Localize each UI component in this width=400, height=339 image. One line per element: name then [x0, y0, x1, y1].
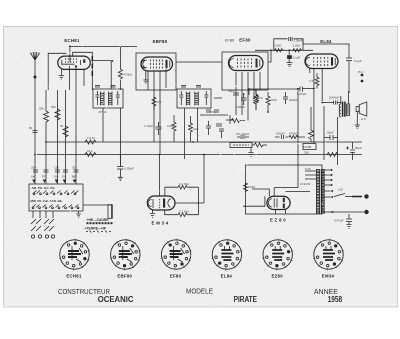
capacitor 6.8k vertical [241, 94, 247, 105]
resistor volume below IF2 [172, 115, 176, 142]
capacitor row above switchbox [33, 170, 79, 172]
power supply box [246, 165, 323, 214]
junction J8 [297, 88, 299, 90]
capacitor 50uF low with plus [346, 142, 355, 160]
EM34 ground [150, 210, 155, 218]
tube EF80 [229, 56, 264, 71]
resistor 2.2M upper EM34 [165, 185, 199, 196]
junction J12 [348, 91, 350, 93]
box around ECH81 left [48, 53, 66, 90]
svg-text:EF80: EF80 [170, 274, 182, 279]
switch contacts row2 [32, 205, 79, 209]
bus wire y154.5 [37, 154, 362, 156]
svg-text:0,05μF: 0,05μF [125, 167, 135, 171]
capacitor 0.05 below IF1 [117, 155, 124, 178]
arrows into switch box [32, 180, 76, 184]
resistor 2.2M lower EM34 [165, 187, 199, 216]
socket EBF80 [110, 239, 141, 271]
fuse box [303, 144, 316, 150]
capacitor 0.1uF below junction [288, 50, 290, 55]
svg-text:5000pF: 5000pF [329, 96, 339, 100]
socket ECH81 [59, 239, 90, 271]
IF1 cap right [116, 91, 120, 105]
ground under ECH81 [59, 69, 64, 79]
box around ECH81 right [73, 52, 93, 90]
IF1 coil 1 [101, 92, 105, 106]
IF1 trimmer caps above box [95, 86, 116, 88]
svg-text:250: 250 [31, 166, 36, 170]
top cluster wire y50.3 [255, 49, 313, 51]
svg-text:0,47μF: 0,47μF [334, 219, 344, 223]
switch contacts below box [31, 211, 54, 231]
resistor 47k under EF80 [254, 90, 258, 110]
junction J6 [192, 141, 194, 143]
svg-text:BE: BE [72, 175, 76, 179]
svg-text:ECH81: ECH81 [66, 274, 82, 279]
tube EM34 [147, 196, 175, 210]
svg-text:+TERRE—HP: +TERRE—HP [85, 226, 107, 230]
junction J10 [313, 141, 315, 143]
svg-text:AM: AM [31, 175, 36, 179]
svg-text:22 k: 22 k [87, 149, 93, 153]
junction J3 [120, 154, 122, 156]
junction J11 [321, 102, 323, 104]
mains terminal 2 [364, 210, 368, 214]
antenna lead wire [34, 65, 36, 184]
wires inside PSU box [252, 165, 310, 196]
junction J7 [248, 88, 250, 90]
wires below EF80 [236, 72, 260, 115]
svg-text:0,5M: 0,5M [167, 124, 174, 128]
tube ECH81 [58, 56, 91, 69]
transformer tap arrows [331, 190, 334, 213]
wire top of R to box1 [45, 90, 47, 111]
svg-text:30: 30 [72, 166, 76, 170]
junction J4 [159, 154, 161, 156]
svg-text:2,2 MΩ: 2,2 MΩ [179, 182, 190, 186]
horizontal wire mid left [200, 114, 228, 116]
svg-text:80: 80 [29, 126, 33, 130]
svg-text:ECH81: ECH81 [64, 38, 80, 43]
antenna [30, 52, 40, 65]
wire grid feeds left section [46, 90, 76, 184]
wire EF80 box to cluster [268, 50, 271, 62]
svg-text:0,05μF: 0,05μF [297, 92, 307, 96]
ground under EBF80 [143, 71, 148, 84]
svg-text:4700: 4700 [270, 98, 277, 102]
wire extensions below EBF80 [154, 90, 160, 155]
resistor 470k vertical mid [266, 92, 270, 112]
wire extensions below EF80 [236, 90, 248, 121]
svg-text:EF80: EF80 [239, 38, 251, 43]
svg-text:470kΩ: 470kΩ [124, 73, 134, 77]
transformer taps [324, 169, 333, 212]
resistor 2.2k right on wire [293, 49, 301, 52]
capacitor antenna lead [33, 131, 38, 133]
switch contacts row1 [33, 191, 79, 195]
speaker [356, 102, 367, 116]
svg-text:47k: 47k [157, 100, 162, 104]
junction J18 [255, 89, 257, 91]
junction J20 [243, 93, 245, 95]
svg-text:0,1μF: 0,1μF [354, 59, 362, 63]
wire EZ80 left lead [243, 196, 286, 214]
svg-text:50μF: 50μF [355, 146, 362, 150]
capacitor 5000pF speaker [322, 101, 341, 105]
svg-text:1kΩ: 1kΩ [193, 127, 199, 131]
resistor 47k mid vertical [254, 90, 259, 110]
junction J5 [203, 154, 205, 156]
svg-text:FUSIB: FUSIB [304, 145, 312, 149]
mains wire bottom [330, 211, 364, 213]
tube EBF80 [141, 57, 173, 71]
IF2 cap left [179, 91, 183, 105]
svg-text:1958: 1958 [328, 295, 343, 304]
capacitor 2.5kpF in loop top [289, 37, 292, 41]
mid cluster caps at y110 [206, 110, 219, 112]
svg-text:200pF: 200pF [289, 98, 298, 102]
svg-text:EF80: EF80 [225, 39, 234, 43]
long vertical x298 [297, 89, 299, 165]
svg-text:EL84: EL84 [221, 274, 233, 279]
wires below IF1 [103, 108, 120, 167]
resistor below IF2 [189, 116, 193, 142]
IF transformer 1 box [93, 89, 123, 108]
wire top cluster to EL84 [303, 39, 349, 58]
resistor 47k vertical [44, 111, 49, 122]
box around EF80 [222, 52, 268, 90]
terminal squares row [87, 222, 113, 224]
junction J1 [69, 46, 71, 48]
svg-text:2,2 MΩ: 2,2 MΩ [179, 210, 190, 214]
svg-text:150Ω: 150Ω [248, 185, 256, 189]
ground below 0.05 cap [118, 177, 123, 180]
wires below EBF80 [148, 69, 166, 90]
right column wires [324, 106, 338, 165]
heater wires 6.3V [305, 171, 316, 179]
svg-text:EBF80: EBF80 [153, 39, 168, 44]
resistor 470k EL84 grid [289, 135, 305, 138]
capacitor 50uF right [324, 135, 338, 140]
svg-text:50k: 50k [51, 105, 56, 109]
svg-text:100pF: 100pF [276, 132, 285, 136]
wire EBF80 to EF80 [176, 61, 222, 63]
bus wire y142 [46, 141, 362, 143]
switch box ground [76, 211, 81, 218]
svg-text:250: 250 [304, 151, 309, 155]
IF1 coil 2 [109, 92, 113, 106]
svg-text:2,2 M: 2,2 M [87, 136, 95, 140]
resistor 4.7M horizontal [231, 119, 245, 123]
junction J13 [45, 141, 47, 143]
svg-text:OC: OC [62, 175, 66, 179]
fuse box right of switch box [108, 205, 112, 219]
wires below EL84 [310, 69, 322, 143]
svg-text:2,5kpF: 2,5kpF [294, 39, 303, 43]
wire EM34 to right [175, 155, 204, 203]
wire from IF2 right to x298 [214, 89, 298, 98]
resistor 1.2k vertical right [309, 107, 314, 142]
socket EF80 [161, 239, 192, 271]
svg-text:1,5: 1,5 [309, 79, 314, 83]
box around EBF80 [136, 53, 176, 90]
junction J15 [34, 154, 36, 156]
socket EZ80 [262, 239, 293, 271]
EM34 feed wire [158, 155, 160, 196]
wire ECH81 to EBF80 [92, 61, 111, 90]
volume pot cluster mid [216, 115, 234, 126]
capacitor 200p [283, 92, 288, 104]
IF2 trimmer caps above box [181, 86, 201, 88]
switch bar [352, 196, 362, 198]
svg-text:AM. PO. GO. OC.: AM. PO. GO. OC. [32, 186, 56, 190]
svg-text:25k: 25k [39, 107, 44, 111]
capacitor cathode EL84 [297, 87, 314, 92]
junction J14 [57, 154, 59, 156]
ground speaker [355, 112, 360, 129]
resistor 22k horizontal on bus2 [85, 153, 96, 157]
svg-text:2k: 2k [60, 124, 64, 128]
IF2 transformer box [177, 89, 211, 108]
capacitor 0.47uF [346, 214, 352, 224]
mains switch [334, 194, 352, 197]
ground mains [347, 225, 352, 229]
junction J19 [267, 111, 269, 113]
resistor 1.5k under EL84 [315, 73, 319, 89]
cluster caps under EF80 [233, 93, 239, 95]
junction J17 [270, 49, 272, 51]
svg-text:PIRATE: PIRATE [234, 295, 257, 304]
svg-text:E M 3 4: E M 3 4 [152, 221, 169, 226]
resistor 2.2k left on wire [274, 49, 282, 52]
svg-text:2,2kΩ: 2,2kΩ [274, 44, 283, 48]
connector strip marks row [86, 231, 111, 233]
output transformer [339, 92, 350, 117]
socket EM34 [313, 239, 344, 271]
capacitor right of EL84 [346, 58, 352, 92]
vertical x249 [248, 89, 250, 95]
svg-text:P.U.: P.U. [358, 70, 364, 74]
wires below IF2 [185, 108, 198, 159]
capacitor 4.7kpF mid-left [156, 122, 162, 135]
resistor 2.2k horizontal low [327, 153, 338, 157]
scan speckles [6, 29, 396, 305]
junction J9 [313, 88, 315, 90]
wires below ECH81 tube [70, 66, 85, 90]
resistor 2.2M horizontal on bus [85, 140, 96, 144]
mains terminal 1 [364, 194, 368, 198]
resistor under EBF80 diode [152, 97, 156, 110]
svg-text:110: 110 [54, 166, 59, 170]
IF2 cap right [204, 91, 208, 105]
PU terminal dots [361, 74, 364, 77]
svg-text:2,2kΩ: 2,2kΩ [293, 44, 302, 48]
IF2 coil 1 [186, 92, 190, 106]
junction dot antenna [34, 76, 37, 79]
svg-text:PU 220pF: PU 220pF [236, 132, 250, 136]
coil marks on box right ECH81 [91, 56, 93, 76]
junction J2 [112, 60, 114, 62]
tube EZ80 [267, 196, 290, 209]
svg-text:H.P.: H.P. [361, 117, 367, 121]
switch box [29, 184, 83, 211]
svg-text:6,3V: 6,3V [305, 167, 311, 171]
resistor 470k between tubes [118, 47, 122, 90]
coupling capacitor 100pF EL84 grid [275, 135, 289, 139]
svg-text:MW. RC. F.B. CAD. BE.: MW. RC. F.B. CAD. BE. [31, 199, 63, 203]
capacitor 0.1 mid [206, 121, 211, 135]
wire from switch box right [83, 205, 112, 218]
resistor vertical mid [63, 126, 68, 137]
boxed resistor 0.75 [230, 143, 252, 148]
svg-text:EM34: EM34 [322, 274, 335, 279]
svg-text:110: 110 [338, 188, 343, 192]
svg-text:OCEANIC: OCEANIC [98, 295, 134, 304]
svg-text:EZ80: EZ80 [271, 274, 283, 279]
svg-text:+HE—CADRE: +HE—CADRE [87, 218, 110, 222]
ground mid [249, 148, 254, 157]
ground below cluster [287, 59, 293, 66]
tube EL84 [305, 54, 338, 69]
capacitor 10kpF mid [219, 129, 224, 138]
resistor 150ohm left of box [244, 183, 248, 191]
svg-text:E Z 8 0: E Z 8 0 [270, 217, 286, 222]
svg-text:EBF80: EBF80 [117, 274, 132, 279]
PU 220pF capacitor [237, 136, 249, 138]
terminals below switch [31, 235, 34, 238]
resistor right of box [252, 143, 267, 147]
svg-text:50pF: 50pF [228, 89, 235, 93]
svg-text:MODELE: MODELE [186, 286, 213, 295]
svg-text:EL84: EL84 [320, 39, 332, 44]
svg-text:4,7kpF: 4,7kpF [144, 124, 153, 128]
svg-text:470kΩ: 470kΩ [289, 132, 299, 136]
junction J16 [288, 49, 290, 51]
wire grid top ECH81 [70, 46, 137, 62]
socket EL84 [212, 239, 243, 271]
IF1 cap left [95, 91, 99, 105]
power transformer windings [317, 169, 325, 214]
top cluster loop rect [274, 39, 303, 51]
IF2 coil 2 [195, 92, 199, 106]
svg-text:6,8kpF: 6,8kpF [236, 105, 245, 109]
resistor 22k vertical [55, 109, 60, 120]
